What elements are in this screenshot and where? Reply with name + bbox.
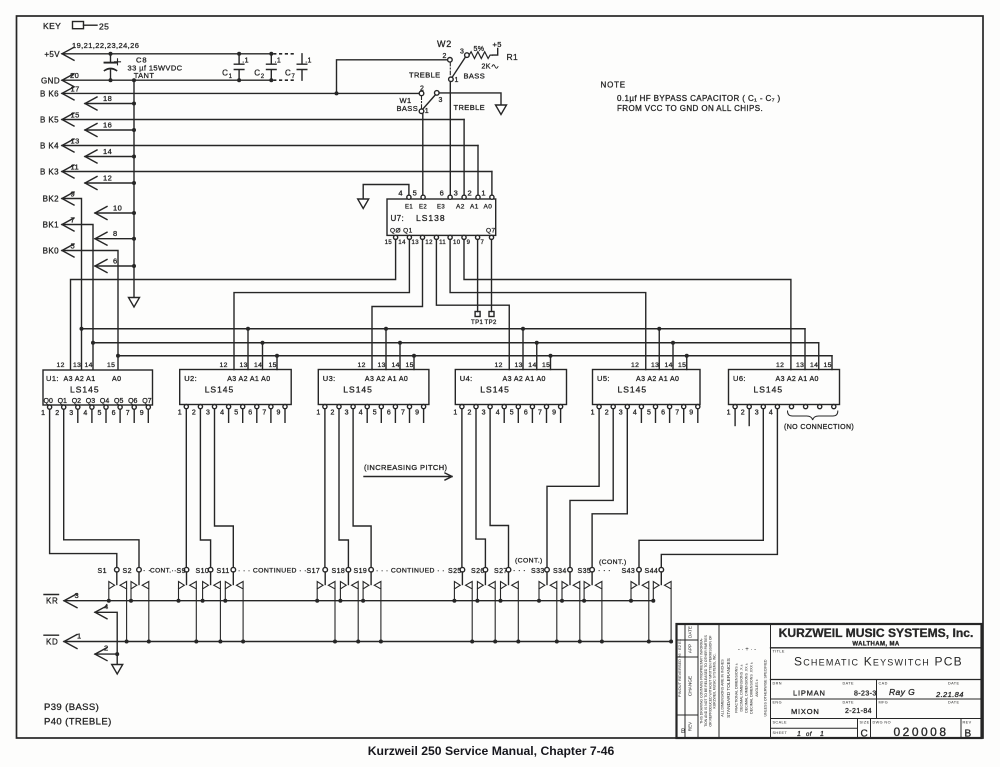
svg-text:7: 7 (292, 74, 296, 80)
switch S34 contact circle (568, 567, 573, 572)
C8 curved plate (105, 69, 117, 71)
U1 bottom pin 7 (132, 405, 136, 409)
svg-text:2.21.84: 2.21.84 (935, 690, 964, 699)
svg-text:4: 4 (83, 410, 87, 417)
svg-text:B K4: B K4 (40, 142, 59, 151)
wire U6 pin 2 stub (748, 410, 750, 426)
junction S33 on KR (537, 599, 541, 603)
junction bus A0 (275, 354, 279, 358)
svg-text:1: 1 (41, 410, 45, 417)
wire U5 pin13 from bus A2 (658, 329, 660, 370)
wire S17 feed stub (324, 572, 326, 585)
svg-text:.1: .1 (305, 58, 312, 65)
svg-text:BASS: BASS (464, 72, 486, 81)
svg-text:Q6: Q6 (128, 398, 137, 405)
svg-text:REV: REV (688, 721, 693, 731)
junction S26 on KR (475, 599, 479, 603)
junction bus A0 (116, 354, 120, 358)
wire U1 pin 9 stub (147, 410, 149, 423)
net KR overline (44, 594, 59, 596)
svg-text:DRN: DRN (773, 682, 782, 686)
svg-text:U6:: U6: (733, 374, 746, 383)
svg-text:9: 9 (467, 240, 471, 246)
switch S10 contact circle (208, 567, 213, 572)
title block title divider (771, 679, 982, 681)
wire U2 pin 7 stub (270, 410, 272, 423)
svg-text:13: 13 (73, 362, 81, 369)
U6 bottom pin 4 (775, 405, 779, 409)
title block bottom divider (771, 718, 982, 720)
wire U2 pin 9 stub (284, 410, 286, 423)
W2 arm to pin 3 (452, 57, 465, 77)
switch S2 KD contact (142, 582, 149, 642)
svg-text:DECIMAL DIMENSIONS .XXX ±: DECIMAL DIMENSIONS .XXX ± (750, 662, 754, 714)
U6 NC pin (789, 405, 793, 409)
svg-text:S33: S33 (531, 568, 545, 575)
svg-text:KURZWEIL MUSIC SYSTEMS, Inc.: KURZWEIL MUSIC SYSTEMS, Inc. (779, 626, 974, 640)
svg-text:B K5: B K5 (40, 116, 59, 125)
switch S18 contact circle (346, 567, 351, 572)
svg-text:U7:: U7: (391, 214, 405, 223)
wire U4 pin 7 stub (546, 410, 548, 423)
svg-text:2: 2 (468, 189, 473, 198)
svg-text:14: 14 (254, 362, 262, 369)
U5 bottom pin 4 (639, 405, 643, 409)
svg-text:CAD: CAD (879, 682, 888, 686)
svg-text:3: 3 (345, 410, 349, 417)
wire U3 pin13 from bus A2 (385, 329, 387, 370)
svg-text:A1: A1 (470, 204, 479, 211)
increasing pitch arrow (364, 473, 452, 480)
wire +5V rail (62, 53, 271, 55)
title block outer frame (677, 624, 982, 738)
U3 bottom pin 2 (337, 405, 341, 409)
wire bus A0 drop to U6 pin15 (831, 356, 833, 370)
wire U3 pin14 from bus A1 (399, 343, 401, 370)
wire U1 pin 4 stub (91, 410, 93, 423)
IC U6 LS145 body (729, 370, 840, 405)
junction bus A2 (521, 327, 525, 331)
U2 bottom pin 7 (269, 405, 273, 409)
junction S10 on KR (201, 599, 205, 603)
svg-text:A2: A2 (456, 204, 465, 211)
switch S9 contact circle (184, 567, 189, 572)
svg-text:1: 1 (797, 731, 801, 738)
U7 top pin 3 (A2) (462, 195, 466, 199)
junction S1 on KR (107, 599, 111, 603)
junction return 16 on ground bus (132, 128, 136, 132)
wire U3 pin 9 stub (423, 410, 425, 423)
switch S35 contact circle (590, 567, 595, 572)
U4 bottom pin 3 (488, 405, 492, 409)
wire S9 feed stub (186, 572, 188, 585)
svg-text:12: 12 (631, 362, 639, 369)
svg-text:A3 A2 A1 A0: A3 A2 A1 A0 (365, 376, 408, 383)
U5 bottom pin 9 (696, 405, 700, 409)
svg-text:7: 7 (675, 410, 679, 417)
svg-text:15: 15 (71, 111, 80, 120)
junction return 18 on ground bus (132, 102, 136, 106)
svg-text:2: 2 (468, 410, 472, 417)
svg-text:10: 10 (453, 240, 461, 246)
svg-text:12: 12 (495, 362, 503, 369)
switch S34 KR contact (562, 582, 568, 601)
wire U7 Q1 to U2 A3 (234, 240, 409, 370)
svg-text:LS138: LS138 (416, 213, 446, 223)
svg-text:BK1: BK1 (43, 221, 59, 230)
svg-text:LS145: LS145 (754, 385, 784, 395)
junction S17 on KD (333, 640, 337, 644)
svg-text:4: 4 (220, 410, 224, 417)
connector return arrow 6 (95, 260, 107, 273)
IC U3 LS145 body (318, 370, 429, 405)
svg-text:5%: 5% (474, 46, 485, 53)
U7 bottom pin 9 (476, 235, 480, 239)
svg-text:10: 10 (113, 203, 122, 212)
svg-text:14: 14 (398, 240, 406, 246)
U3 bottom pin 6 (393, 405, 397, 409)
IC U1 LS145 body (43, 370, 153, 405)
svg-text:Q7: Q7 (486, 228, 495, 235)
wire return 10 (95, 212, 134, 214)
junction S43 on KD (647, 640, 651, 644)
U7 bottom pin 14 (407, 235, 411, 239)
junction C8 top (109, 52, 113, 56)
svg-text:S25: S25 (448, 568, 462, 575)
svg-text:5: 5 (98, 410, 102, 417)
svg-text:8-23-3: 8-23-3 (854, 691, 877, 698)
wire U7 A2 from B K5 (463, 120, 465, 196)
wire GND rail dotted continuation (274, 79, 297, 81)
svg-text:APP: APP (688, 644, 693, 653)
wire U6 pin 1 stub (734, 410, 736, 426)
wire bus A1 (BK1) (93, 342, 819, 344)
U3 bottom pin 1 (323, 405, 327, 409)
title block eng divider (771, 698, 982, 700)
svg-text:25: 25 (99, 22, 109, 32)
svg-text:3: 3 (206, 410, 210, 417)
svg-text:7: 7 (538, 410, 542, 417)
junction bus A0 (685, 354, 689, 358)
switch S1 KD contact (120, 582, 127, 642)
connector +5V arrow pin 19 (62, 47, 74, 60)
junction bus A2 (80, 327, 84, 331)
svg-text:DWG NO: DWG NO (873, 721, 891, 725)
U1 bottom pin 5 (104, 405, 108, 409)
C8 plus sign (115, 59, 121, 65)
svg-text:U4:: U4: (460, 374, 473, 383)
capacitor C7 (297, 54, 307, 80)
wire U5 pin 7 stub (683, 410, 685, 423)
svg-text:6: 6 (112, 410, 116, 417)
svg-text:S34: S34 (553, 568, 567, 575)
wire U7 Q4 to U5 A3 (450, 240, 646, 370)
svg-text:A3 A2 A1: A3 A2 A1 (64, 376, 96, 383)
svg-text:1: 1 (77, 632, 82, 641)
test point TP2 (489, 312, 494, 317)
junction bus A1 (91, 341, 95, 345)
net KD overline (44, 634, 59, 636)
U6 NC pin (832, 405, 836, 409)
svg-text:S44: S44 (645, 568, 659, 575)
wire U4 pin1 to S25 (461, 410, 463, 568)
svg-text:E2: E2 (419, 205, 427, 211)
svg-text:LS145: LS145 (70, 385, 100, 395)
svg-text:6: 6 (248, 410, 252, 417)
switch S18 KD contact (352, 582, 359, 642)
svg-text:KD: KD (46, 638, 59, 647)
wire S44 feed stub (660, 572, 662, 585)
svg-text:(INCREASING PITCH): (INCREASING PITCH) (364, 463, 448, 472)
svg-text:Q2: Q2 (72, 398, 81, 405)
junction C8 bottom (109, 78, 113, 82)
U5 bottom pin 5 (653, 405, 657, 409)
svg-text:KEY: KEY (43, 21, 61, 31)
svg-text:S17: S17 (307, 568, 321, 575)
title block header divider (771, 647, 982, 649)
wire U5 pin to S33 (547, 410, 599, 568)
svg-text:S43: S43 (622, 568, 636, 575)
switch S19 KD contact (374, 582, 381, 642)
svg-text:S9: S9 (177, 568, 186, 575)
U6 no-connection brace (788, 411, 838, 420)
svg-text:SHEET: SHEET (773, 731, 788, 735)
KEY legend switch symbol (73, 22, 84, 29)
wire U7 Q0 to U1 A3 (71, 240, 396, 370)
wire U2 pin to S11 (215, 410, 234, 568)
svg-text:TANT: TANT (134, 71, 155, 80)
junction bus A2 (246, 327, 250, 331)
svg-text:17: 17 (71, 85, 80, 94)
svg-text:MIXON: MIXON (791, 707, 820, 716)
U4 bottom pin 1 (460, 405, 464, 409)
svg-text:13: 13 (515, 362, 523, 369)
wire U2 pin to S10 (200, 410, 210, 568)
svg-text:A0: A0 (484, 204, 493, 211)
svg-text:3: 3 (755, 410, 759, 417)
wire U4 pin 6 stub (531, 410, 533, 423)
connector BK0 arrow (62, 244, 74, 257)
junction S25 on KR (452, 599, 456, 603)
svg-text:13: 13 (378, 362, 386, 369)
svg-text:S1: S1 (98, 568, 107, 575)
svg-text:12: 12 (103, 173, 112, 182)
junction S18 on KD (356, 640, 360, 644)
switch S27 KD contact (512, 582, 519, 642)
switch S35 KR contact (584, 582, 590, 601)
wire bus A1 drop to U6 pin14 (818, 343, 820, 370)
svg-text:9: 9 (140, 410, 144, 417)
switch S43 contact circle (637, 567, 642, 572)
wire S26 feed stub (484, 572, 486, 585)
wire U2 pin 6 stub (256, 410, 258, 423)
svg-text:1: 1 (316, 410, 320, 417)
svg-text:REV: REV (963, 721, 972, 725)
wire return 18 (85, 103, 134, 105)
switch S44 contact circle (659, 567, 664, 572)
U3 bottom pin 5 (379, 405, 383, 409)
svg-text:W2: W2 (437, 39, 452, 49)
wire S35 feed stub (591, 572, 593, 585)
switch S43 KD contact (642, 582, 649, 642)
svg-text:E3: E3 (437, 205, 445, 211)
wire U4 pin13 from bus A2 (522, 329, 524, 370)
U5 bottom pin 2 (611, 405, 615, 409)
U4 bottom pin 5 (516, 405, 520, 409)
connector return arrow 14 (85, 150, 97, 163)
svg-text:15: 15 (107, 362, 115, 369)
wire U1 pin 5 stub (105, 410, 107, 423)
svg-text:1: 1 (591, 410, 595, 417)
svg-text:S11: S11 (217, 568, 230, 575)
U7 top pin 5 (E2) (421, 195, 425, 199)
svg-text:1: 1 (229, 74, 233, 80)
wire S34 feed stub (569, 572, 571, 585)
wire U3 pin to S18 (339, 410, 348, 568)
U4 bottom pin 9 (559, 405, 563, 409)
U7 top pin 6 (E3) (448, 195, 452, 199)
svg-text:4: 4 (359, 410, 363, 417)
svg-text:C: C (861, 729, 869, 740)
switch S44 KR contact (653, 582, 659, 601)
svg-text:12: 12 (776, 362, 784, 369)
U1 bottom pin 9 (146, 405, 150, 409)
svg-text:U1:: U1: (46, 374, 59, 383)
svg-text:R1: R1 (507, 52, 519, 62)
U5 bottom pin 3 (625, 405, 629, 409)
C8 lead top (110, 54, 112, 62)
svg-text:9: 9 (552, 410, 556, 417)
svg-text:CONT.··: CONT.·· (150, 568, 177, 575)
switch S17 KR contact (317, 582, 323, 601)
svg-text:6: 6 (440, 189, 445, 198)
junction return 6 on ground bus (132, 264, 136, 268)
wire U5 pin15 from bus A0 (686, 356, 688, 370)
svg-text:14: 14 (103, 147, 112, 156)
wire U1 pin 3 stub (77, 410, 79, 423)
junction ground bus at GND rail (132, 78, 136, 82)
svg-text:6: 6 (661, 410, 665, 417)
svg-text:KURZWEIL MUSIC SYSTEMS, INC.: KURZWEIL MUSIC SYSTEMS, INC. (713, 653, 717, 708)
wire U5 pin 6 stub (669, 410, 671, 423)
svg-text:3: 3 (482, 410, 486, 417)
switch S2 KR contact (131, 582, 137, 601)
connector return arrow 10 (95, 207, 107, 220)
switch S11 contact circle (231, 567, 236, 572)
svg-text:FROM VCC TO GND ON ALL CHIPS.: FROM VCC TO GND ON ALL CHIPS. (617, 104, 763, 113)
svg-text:TP1: TP1 (471, 320, 483, 326)
svg-text:DATE: DATE (843, 682, 855, 686)
U2 bottom pin 9 (283, 405, 287, 409)
junction return 8 on ground bus (132, 237, 136, 241)
svg-text:13: 13 (796, 362, 804, 369)
W1 pin 2 (419, 91, 424, 96)
svg-text:1: 1 (425, 108, 429, 115)
svg-text:5: 5 (647, 410, 651, 417)
svg-text:TREBLE: TREBLE (454, 103, 486, 112)
svg-text:11: 11 (439, 240, 446, 246)
svg-text:· · ·: · · · (513, 568, 526, 575)
junction S25 on KD (470, 640, 474, 644)
switch S27 contact circle (506, 567, 511, 572)
switch S33 contact circle (545, 567, 550, 572)
svg-text:ANGLES ±: ANGLES ± (755, 679, 759, 697)
U3 bottom pin 3 (351, 405, 355, 409)
svg-text:1: 1 (178, 410, 182, 417)
svg-text:LS145: LS145 (618, 385, 648, 395)
svg-text:4: 4 (769, 410, 773, 417)
R1 ohm squiggle (492, 65, 498, 69)
svg-text:UNLESS OTHERWISE SPECIFIED: UNLESS OTHERWISE SPECIFIED (764, 659, 768, 716)
svg-text:S2: S2 (123, 568, 132, 575)
ground symbol left bus (129, 298, 140, 308)
switch S19 KR contact (363, 582, 369, 601)
svg-text:5: 5 (413, 189, 418, 198)
junction S34 on KD (578, 640, 582, 644)
wire BK6 to W2 (337, 60, 448, 94)
wire U3 pin 5 stub (380, 410, 382, 423)
wire return 16 (85, 129, 134, 131)
U7 top pin 1 (A0) (490, 195, 494, 199)
wire U5 pin to S35 (592, 410, 627, 568)
svg-text:14: 14 (392, 362, 400, 369)
wire U4 pin14 from bus A1 (536, 343, 538, 370)
W1 pin 3 (435, 91, 440, 96)
switch S25 KD contact (466, 582, 473, 642)
connector B K6 arrow (62, 87, 74, 100)
svg-text:(NO CONNECTION): (NO CONNECTION) (784, 424, 854, 431)
wire R1 to +5 (493, 49, 498, 56)
junction cap top (269, 52, 273, 56)
switch S1 contact circle (115, 567, 120, 572)
svg-text:A3 A2 A1 A0: A3 A2 A1 A0 (227, 376, 270, 383)
junction bus A0 (412, 354, 416, 358)
svg-text:1: 1 (453, 410, 457, 417)
svg-text:LIPMAN: LIPMAN (793, 689, 826, 698)
U2 bottom pin 3 (212, 405, 216, 409)
IC U2 LS145 body (180, 370, 292, 405)
svg-text:+5: +5 (493, 40, 502, 49)
ground symbol U7 E1 (358, 199, 369, 209)
svg-text:Ray G: Ray G (889, 687, 915, 697)
wire S43 feed stub (638, 572, 640, 585)
junction S18 on KR (338, 599, 342, 603)
switch S17 KD contact (328, 582, 335, 642)
switch S27 KR contact (501, 582, 507, 601)
switch S34 KD contact (573, 582, 580, 642)
junction bus A1 (671, 341, 675, 345)
ground symbol KR/KD return (112, 665, 123, 675)
svg-text:DECIMAL DIMENSIONS .XX ±: DECIMAL DIMENSIONS .XX ± (745, 663, 749, 712)
svg-text:7: 7 (262, 410, 266, 417)
svg-text:5: 5 (234, 410, 238, 417)
wire KD bus (64, 641, 671, 643)
U7 top pin 2 (A1) (476, 195, 480, 199)
svg-text:Q1: Q1 (58, 398, 67, 405)
return arrow pin 4 (95, 606, 107, 619)
wire U4 pin to S27 (490, 410, 508, 568)
connector B K3 arrow (62, 165, 74, 178)
W2 arm dash-dot pole (449, 62, 451, 77)
svg-text:2: 2 (331, 410, 335, 417)
wire U1 pin 7 stub (133, 410, 135, 423)
switch S10 KR contact (203, 582, 209, 601)
KD arrow (64, 635, 77, 649)
U1 bottom pin 2 (62, 405, 66, 409)
wire KR bus (64, 600, 653, 602)
junction S33 on KD (555, 640, 559, 644)
switch S19 contact circle (369, 567, 374, 572)
